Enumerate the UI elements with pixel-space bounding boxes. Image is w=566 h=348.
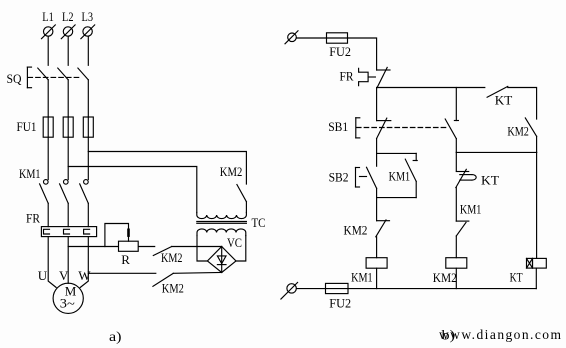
svg-text:L1: L1 (42, 9, 54, 24)
svg-text:KM2: KM2 (162, 280, 184, 295)
thermal contact FR NC blade (377, 67, 387, 87)
wire mid bar (456, 151, 536, 153)
resistor R tap mark (127, 230, 130, 236)
fuse FU2 top (327, 33, 348, 43)
wire FU2 to FR contact (348, 38, 377, 70)
button SB1 NC blade (377, 118, 387, 138)
wire KM2 self-hold to mid bar (536, 136, 538, 152)
contact KM2 NC seat (377, 220, 390, 222)
motor M 3~ (53, 283, 83, 313)
svg-text:KT: KT (481, 173, 499, 188)
svg-text:KM1: KM1 (460, 202, 482, 217)
wire L3 phase to KM2/TC branch (88, 152, 246, 185)
resistor R (119, 241, 139, 251)
svg-text:KM1: KM1 (389, 169, 411, 184)
wire top bar to KM1 aux (415, 153, 417, 160)
rectifier VC diamond (207, 247, 236, 273)
wire top rail down (middle branch) (455, 88, 457, 121)
svg-text:FU2: FU2 (329, 44, 351, 59)
node top terminal (285, 31, 298, 44)
svg-text:FR: FR (26, 211, 40, 226)
resistor R tap loop (105, 224, 129, 247)
wire SB1 to parallel top bar (376, 139, 378, 154)
wire SB1 NO to mid bar (455, 139, 457, 153)
wire KM1 to FR pole2 (67, 203, 69, 226)
switch SQ pole 2 blade (58, 68, 68, 80)
wire KM2 coil to rail (455, 268, 457, 288)
wire FR node right to KT contact (377, 87, 485, 89)
wire L2 phase to TC primary (68, 167, 197, 213)
svg-text:KM2: KM2 (220, 164, 243, 179)
svg-text:FU2: FU2 (329, 296, 351, 311)
wire FR to motor V (junction to R wire) (67, 237, 69, 284)
wire KM2 lower to VC bottom vertex (173, 271, 221, 274)
thermal contact FR actuator (359, 68, 376, 85)
wire V phase to R (upper DC wire) (68, 246, 118, 248)
svg-text:SB2: SB2 (329, 170, 349, 185)
svg-text:TC: TC (252, 215, 266, 230)
switch SQ pole 1 blade (38, 68, 48, 80)
wire terminal to FU2 (297, 37, 327, 39)
svg-text:FR: FR (340, 69, 354, 84)
contact KM1 aux tick (413, 160, 417, 162)
wire SB2 to bottom bar (376, 188, 378, 197)
contact KT delayed NC blade (456, 169, 467, 187)
wire bottom bar to KM2 NC (376, 198, 378, 221)
contact KT delayed NC seat (456, 171, 468, 173)
wire L1 to SQ (47, 36, 49, 65)
wire mid bar to KT delayed contact (455, 152, 457, 171)
fuse FU1 pole1 (43, 117, 53, 137)
contactor KM1 pole2 contact (60, 180, 69, 204)
contact KM1 aux blade (405, 159, 416, 181)
wire KT contact to KM1 aux2 (455, 188, 457, 222)
svg-text:KT: KT (495, 93, 513, 108)
wire TC secondary left to VC left vertex (197, 236, 207, 262)
svg-text:KM2: KM2 (161, 250, 183, 265)
button SB2 bracket (356, 168, 367, 188)
button SB1 NC seat (377, 120, 391, 122)
wire KM1 coil to rail (376, 268, 378, 288)
wire KM1 aux2 to KM2 coil (455, 236, 457, 258)
wire KM1 aux to bottom bar (415, 181, 417, 197)
svg-text:L3: L3 (82, 9, 94, 24)
fuse FU1 pole3 (83, 117, 93, 137)
wire FR to motor U (48, 237, 56, 288)
wire FU1 to KM1 pole2 (junction to TC primary feed) (67, 137, 69, 179)
fuse FU2 bottom (326, 283, 349, 293)
transformer TC primary winding (197, 213, 247, 219)
wire SQ to FU1 pole2 (67, 80, 69, 117)
contact KT NO (top) blade (487, 86, 508, 97)
svg-text:a): a) (109, 329, 122, 344)
wire KM1 to FR pole3 (87, 203, 89, 226)
wire FR to motor W (junction to lower KM2 wire) (80, 237, 88, 288)
node L2 terminal (61, 25, 75, 39)
switch SQ linkage bracket (27, 67, 31, 88)
wire KM2 upper to VC top vertex (172, 246, 222, 248)
wire terminal to FU2 bottom (297, 288, 326, 290)
wire KM1 to FR pole1 (47, 203, 49, 226)
thermal relay FR heater box (41, 227, 96, 237)
svg-text:3~: 3~ (60, 296, 75, 311)
contact KM2 NC blade (376, 220, 386, 237)
node L1 terminal (42, 25, 56, 39)
button SB1 linkage dashed line (357, 127, 447, 129)
wire bottom rail (348, 288, 536, 290)
wire parallel combo top bar (377, 152, 417, 154)
svg-text:FU1: FU1 (17, 119, 37, 134)
wire KT coil to rail (535, 268, 537, 289)
contactor KM1 pole3 contact (80, 180, 89, 204)
svg-text:KM2: KM2 (344, 223, 368, 238)
coil KT (time relay) (527, 258, 547, 268)
rectifier VC diode (217, 247, 226, 273)
node L3 terminal (81, 25, 95, 39)
button SB1 NO blade (445, 119, 456, 139)
thermal relay FR heater element 1 (44, 229, 50, 234)
wire FU1 to KM1 pole3 (junction to KM2 branch) (87, 137, 89, 179)
wire TC secondary right to VC right vertex (236, 236, 246, 262)
wire FU1 to KM1 pole1 (47, 137, 49, 179)
svg-text:KM1: KM1 (19, 166, 41, 181)
svg-text:VC: VC (227, 235, 242, 250)
wire L3 to SQ (87, 36, 89, 65)
transformer TC secondary winding (197, 229, 246, 236)
transformer TC core (197, 222, 247, 224)
wire KM2 NC to KM1 coil (376, 237, 378, 258)
contact KM2 lower (DC-) blade (153, 273, 173, 286)
contactor KM1 pole1 contact (40, 180, 49, 204)
svg-text:KM2: KM2 (433, 270, 457, 285)
svg-text:SB1: SB1 (328, 119, 348, 134)
wire W phase to KM2 lower contact (lower DC wire) (88, 272, 156, 274)
wire SQ to FU1 pole3 (87, 80, 89, 117)
contact KT delay symbol (460, 175, 476, 181)
wire L2 to SQ (67, 36, 69, 65)
svg-text:SQ: SQ (7, 71, 23, 86)
button SB1 NO tick (454, 120, 458, 122)
contact KM1 aux2 blade (456, 222, 466, 236)
wire parallel combo bottom bar (377, 197, 417, 199)
thermal relay FR heater element 2 (64, 229, 70, 234)
fuse FU1 pole2 (63, 117, 73, 137)
wire FR node down to SB1 (376, 88, 378, 121)
switch SQ pole 3 blade (78, 68, 88, 80)
wire KT contact to right branch corner (508, 88, 537, 120)
coil KM1 (366, 258, 387, 269)
thermal contact FR NC seat (377, 69, 390, 71)
svg-text:KT: KT (510, 270, 523, 285)
svg-text:U: U (38, 268, 48, 283)
button SB2 NO blade (367, 167, 377, 188)
wire top bar to SB2 (376, 153, 378, 166)
button SB1 bracket (356, 118, 360, 138)
switch SQ linkage dashed line (28, 76, 82, 78)
wire right branch down to KT coil (536, 152, 538, 258)
coil KM2 (446, 258, 467, 269)
svg-text:R: R (121, 252, 130, 267)
contact KM2 (TC branch) blade (237, 185, 247, 202)
thermal relay FR heater element 3 (84, 229, 90, 234)
svg-text:W: W (78, 268, 91, 283)
svg-text:www.diangon.com: www.diangon.com (439, 327, 561, 342)
wire KM2 to TC primary right (245, 202, 247, 213)
svg-text:KM1: KM1 (351, 270, 373, 285)
wire R to KM2 upper contact (139, 246, 155, 248)
svg-text:KM2: KM2 (507, 124, 529, 139)
contact KM2 self-hold blade (525, 118, 536, 136)
contact KM2 upper (DC+) blade (153, 247, 171, 256)
svg-text:L2: L2 (62, 9, 74, 24)
contact KM1 aux2 seat (456, 220, 469, 222)
svg-text:V: V (59, 268, 69, 283)
node bottom terminal (281, 282, 298, 299)
wire SQ to FU1 pole1 (47, 80, 49, 117)
